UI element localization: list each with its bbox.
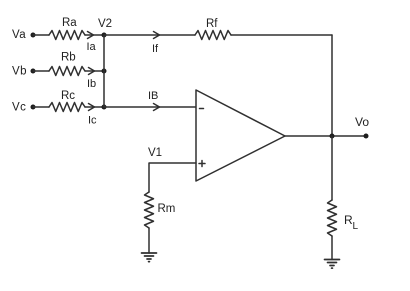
resistor Ra — [49, 31, 85, 40]
wire output to RL — [331, 136, 333, 200]
svg-text:Rm: Rm — [158, 203, 176, 215]
svg-text:Ra: Ra — [62, 17, 77, 29]
wire V2 to Rf — [104, 34, 195, 36]
output terminal Vo — [364, 134, 369, 139]
junction node b — [102, 69, 107, 74]
wire Rb to bus — [85, 70, 104, 72]
op-amp minus pin — [200, 108, 204, 110]
svg-text:Vb: Vb — [12, 66, 27, 78]
op-amp U1 — [196, 90, 285, 181]
source terminal Va — [31, 33, 36, 38]
ground (RL) — [325, 260, 340, 269]
svg-text:Ib: Ib — [87, 78, 96, 90]
resistor RL — [328, 200, 337, 236]
source terminal Vc — [31, 105, 36, 110]
wire Va to Ra — [33, 34, 49, 36]
svg-text:Rb: Rb — [61, 52, 76, 64]
source terminal Vb — [31, 69, 36, 74]
wire op-amp output — [285, 135, 366, 137]
op-amp plus pin — [199, 161, 205, 167]
current arrow If — [154, 32, 160, 39]
node V2 — [102, 33, 107, 38]
resistor Rc — [49, 103, 85, 112]
svg-text:IB: IB — [148, 90, 158, 102]
ground (Rm) — [142, 253, 157, 262]
wire Rm to ground — [148, 228, 150, 253]
junction node c — [102, 105, 107, 110]
svg-text:V1: V1 — [148, 147, 162, 159]
svg-text:Va: Va — [12, 29, 26, 41]
wire bus to inverting input — [104, 106, 196, 108]
svg-text:Rc: Rc — [61, 90, 75, 102]
wire Vc to Rc — [33, 106, 49, 108]
resistor Rf — [195, 31, 231, 40]
svg-text:V2: V2 — [98, 18, 112, 30]
current arrow Ia — [88, 32, 94, 39]
svg-text:Vo: Vo — [355, 115, 369, 129]
wire Rf to feedback corner — [231, 34, 332, 36]
svg-text:Rf: Rf — [206, 18, 218, 30]
current arrow Ic — [89, 104, 95, 111]
svg-text:Vc: Vc — [12, 102, 26, 114]
wire RL to ground — [331, 236, 333, 260]
svg-text:Ia: Ia — [87, 41, 97, 53]
wire V1 to non-inverting input — [149, 163, 196, 192]
wire Vb to Rb — [33, 70, 49, 72]
svg-text:Ic: Ic — [88, 115, 97, 127]
svg-text:L: L — [353, 221, 359, 232]
current arrow Ib — [89, 68, 95, 75]
wire summing bus vertical — [103, 35, 105, 107]
wire Rc to bus — [85, 106, 104, 108]
svg-text:If: If — [152, 43, 159, 55]
junction node output — [330, 134, 335, 139]
current arrow IB — [154, 104, 160, 111]
wire feedback vertical — [331, 35, 333, 136]
wire Ra to node V2 — [85, 34, 104, 36]
resistor Rb — [49, 67, 85, 76]
resistor Rm — [145, 192, 154, 228]
